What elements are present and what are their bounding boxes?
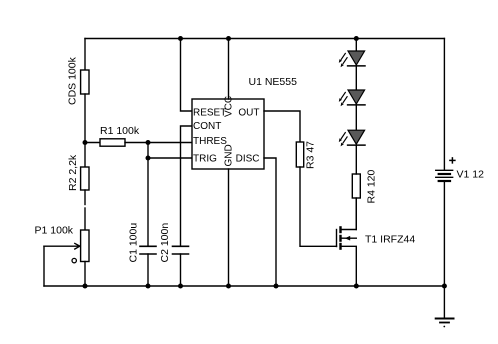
wire VCC pin [228, 39, 230, 100]
node bottom-battery [442, 284, 447, 289]
LED D2 [339, 90, 365, 106]
wire battery column top [443, 39, 445, 171]
battery V1 plates [436, 169, 453, 171]
wire DISC [264, 158, 276, 286]
svg-text:RESET: RESET [193, 108, 226, 119]
svg-text:U1 NE555: U1 NE555 [249, 76, 298, 88]
wire P1 bottom [84, 262, 86, 287]
wire drain lead [341, 198, 357, 230]
node bottom-C1 [146, 284, 151, 289]
resistor R4 120 body [352, 174, 360, 198]
wire C2 bottom [180, 254, 182, 286]
svg-text:V1 12: V1 12 [457, 169, 485, 181]
wire node A to R1 [85, 142, 100, 144]
wire to ground [443, 286, 445, 318]
wire node B down [147, 143, 149, 247]
svg-text:VCC: VCC [224, 96, 235, 117]
node bottom-P1 [83, 284, 88, 289]
resistor R3 47 body [296, 142, 303, 167]
wire R4 to drain [355, 198, 357, 230]
node top-vcc [226, 36, 231, 41]
node bottom-GND [226, 284, 231, 289]
resistor CDS 100k body [81, 70, 89, 94]
wire D2-D3 [355, 105, 357, 130]
svg-text:P1 100k: P1 100k [35, 225, 74, 237]
node A (CDS/R2/R1) [83, 140, 88, 145]
node bottom-source [354, 284, 359, 289]
wire body lead with arrow [341, 237, 357, 239]
svg-text:OUT: OUT [238, 108, 259, 119]
wire D1-D2 [355, 66, 357, 90]
node bottom-DISC [274, 284, 279, 289]
svg-text:R1 100k: R1 100k [100, 125, 140, 137]
svg-text:CONT: CONT [193, 121, 221, 132]
wire R2 bottom segment [84, 190, 86, 205]
wire R1 to node B [125, 142, 148, 144]
wire top rail [85, 38, 444, 40]
wire P1 wiper [44, 245, 79, 247]
svg-text:C2 100n: C2 100n [159, 223, 171, 263]
capacitor C1 100u plates [140, 245, 156, 247]
wire TRIG [148, 157, 192, 159]
node C (TRIG/C1) [146, 156, 151, 161]
wire THRES [148, 142, 192, 144]
node B (R1/THRES) [146, 140, 151, 145]
wire CONT dropper [181, 126, 193, 246]
wire D3 to R4 [355, 145, 357, 174]
svg-text:C1 100u: C1 100u [128, 223, 140, 263]
transistor T1 channel segments [339, 227, 341, 232]
svg-text:T1 IRFZ44: T1 IRFZ44 [365, 234, 415, 246]
wire bottom rail [44, 285, 444, 287]
wire OUT [264, 111, 300, 142]
resistor R2 2,2k body [81, 167, 89, 190]
wire LED chain top [355, 39, 357, 52]
battery plus sign [450, 159, 455, 161]
wire RESET riser [181, 39, 193, 112]
potentiometer P1 100k body [81, 230, 89, 262]
wire P1 top segment [84, 208, 86, 230]
svg-text:R3 47: R3 47 [305, 141, 317, 169]
LED D3 [339, 130, 365, 146]
svg-text:CDS 100k: CDS 100k [67, 56, 79, 105]
wire R3 to gate [300, 167, 337, 246]
svg-text:R4 120: R4 120 [366, 169, 378, 203]
capacitor C2 100n plates [173, 245, 189, 247]
wire left column top [84, 39, 86, 71]
wire GND pin [228, 169, 230, 286]
resistor R1 100k body [100, 139, 125, 146]
svg-text:DISC: DISC [236, 154, 260, 165]
potentiometer marker circle [72, 258, 76, 262]
IC U1 NE555 box [192, 99, 264, 169]
ground [436, 318, 454, 320]
node bottom-C2 [178, 284, 183, 289]
svg-text:R2 2,2k: R2 2,2k [67, 154, 79, 191]
wire battery bottom [443, 181, 445, 286]
node top-reset [178, 36, 183, 41]
LED D1 [339, 51, 365, 67]
wire CDS to node [84, 94, 86, 167]
wire source lead [341, 246, 357, 286]
wire C1 bottom [147, 254, 149, 286]
svg-text:GND: GND [224, 144, 235, 166]
svg-text:THRES: THRES [193, 136, 227, 147]
transistor T1 IRFZ44 gate bar [336, 230, 338, 247]
svg-text:TRIG: TRIG [193, 153, 217, 164]
node top-led [354, 36, 359, 41]
